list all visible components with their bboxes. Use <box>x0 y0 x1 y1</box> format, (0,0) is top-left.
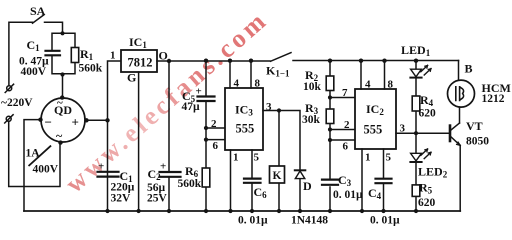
svg-text:2: 2 <box>344 119 350 131</box>
node QD bottom <box>58 140 62 144</box>
wire R2 R3 chain <box>329 61 331 212</box>
svg-text:30k: 30k <box>302 114 321 126</box>
svg-text:620: 620 <box>418 197 436 209</box>
wire IC3 pin2 <box>206 127 225 129</box>
wire IC2 pin5 to C4 <box>383 149 385 211</box>
node QD left <box>38 118 42 122</box>
svg-text:560k: 560k <box>178 178 202 190</box>
node ground D <box>298 209 302 213</box>
svg-text:7: 7 <box>342 87 348 99</box>
svg-text:10k: 10k <box>303 81 322 93</box>
node IC2 pin4 rail <box>359 59 363 63</box>
LED2 arrows <box>421 149 431 159</box>
svg-text:D: D <box>303 179 312 193</box>
node AC terminal L <box>5 84 13 92</box>
svg-text:5: 5 <box>386 152 392 164</box>
svg-text:K: K <box>273 170 282 182</box>
wire IC3 pin3 output <box>263 111 300 170</box>
svg-text:VT: VT <box>466 119 483 133</box>
svg-text:560k: 560k <box>79 63 103 75</box>
svg-text:3: 3 <box>266 101 272 113</box>
node ground C1 <box>105 209 109 213</box>
wire IC2 pin8 <box>384 61 386 90</box>
wire IC1 ground pin G <box>138 72 140 211</box>
capacitor C5 47u plates <box>198 97 215 102</box>
resistor R1 branch <box>63 33 76 73</box>
svg-text:5: 5 <box>254 152 260 164</box>
node ground K <box>277 209 281 213</box>
switch SA arm <box>33 15 45 24</box>
LED2 symbol <box>411 153 422 161</box>
svg-text:6: 6 <box>213 140 219 152</box>
node ground R5 <box>414 209 418 213</box>
node AC terminal N <box>5 115 13 123</box>
wire IC3 pin5 to C6 <box>251 150 253 211</box>
node ground C6 <box>250 209 254 213</box>
svg-text:0. 01µ: 0. 01µ <box>333 189 363 201</box>
op-amp regulator IC1 7812 box <box>121 50 157 72</box>
node LED1 rail <box>414 59 418 63</box>
bridge rectifier QD <box>41 98 85 142</box>
capacitor C1 220u plates <box>98 172 119 177</box>
wire QD minus to left ground drop <box>24 120 41 211</box>
wire AC return: terminal N down, right, up to QD <box>9 121 60 186</box>
buzzer element symbol <box>456 87 460 101</box>
svg-text:1: 1 <box>110 50 116 62</box>
svg-text:+: + <box>98 161 104 173</box>
svg-text:47µ: 47µ <box>182 101 201 113</box>
wire top-left from switch SA to C1/R1 <box>9 22 63 85</box>
svg-text:400V: 400V <box>33 164 59 176</box>
diode D 1N4148 <box>299 179 301 211</box>
LED1 arrows <box>421 65 431 75</box>
svg-text:555: 555 <box>236 122 255 136</box>
capacitor C6 plates <box>244 179 261 183</box>
node C5 pin2 junction <box>204 126 208 130</box>
node C5 top rail <box>204 59 208 63</box>
node QD+ on V+ bus <box>105 118 109 122</box>
node pin2 IC2 junction <box>328 127 332 131</box>
wire IC2 pin6 <box>330 139 355 141</box>
wire IC2 pin1 to ground <box>361 149 363 211</box>
node R2 rail <box>328 59 332 63</box>
svg-text:0. 01µ: 0. 01µ <box>370 215 400 227</box>
node R2 R3 pin7 junction <box>328 95 332 99</box>
node C1R1 to QD junction <box>60 72 64 76</box>
resistor R1 body <box>71 48 78 63</box>
wire buzzer to VT collector <box>459 107 461 123</box>
wire QD plus to V+ bus <box>85 119 108 121</box>
wire VT emitter to ground rail <box>459 145 461 211</box>
resistor R5 body <box>412 185 420 197</box>
node ground C4 <box>381 209 385 213</box>
wire C5 / R6 / pins 2,6 bus <box>205 61 207 212</box>
svg-text:−: − <box>45 115 52 130</box>
svg-text:8: 8 <box>255 78 261 90</box>
svg-text:4: 4 <box>365 79 371 91</box>
wire IC2 pin3 to VT base <box>396 132 450 134</box>
wire ground rail <box>24 210 460 212</box>
node QD top <box>60 95 64 99</box>
buzzer B drop from rail <box>458 61 460 81</box>
node pin6 IC2 junction <box>328 138 332 142</box>
wire IC3 pin6 <box>206 139 225 141</box>
svg-text:1212: 1212 <box>482 93 505 105</box>
capacitor C3 plates <box>322 180 338 185</box>
svg-text:8050: 8050 <box>466 136 489 148</box>
svg-text:7812: 7812 <box>128 56 153 70</box>
svg-text:+: + <box>160 161 166 173</box>
svg-text:620: 620 <box>419 108 437 120</box>
capacitor C2 56u plates <box>160 172 181 177</box>
svg-text:1: 1 <box>365 152 371 164</box>
node ground IC3 pin1 <box>228 209 232 213</box>
resistor R6 body <box>202 168 210 187</box>
timer IC2 555 box <box>355 89 396 149</box>
node IC3 pin4 rail <box>228 59 232 63</box>
svg-text:1A: 1A <box>26 148 41 160</box>
node ground C3 <box>328 209 332 213</box>
node pin6 junction <box>204 138 208 142</box>
resistor R2 body <box>326 76 334 91</box>
svg-text:~: ~ <box>56 129 63 143</box>
wire V+ bus (QD+ / IC1 pin1 / C1 220u) <box>108 61 122 211</box>
node pin3 LED junction <box>414 131 418 135</box>
node SA to C1R1 junction <box>60 31 64 35</box>
svg-text:6: 6 <box>343 141 349 153</box>
LED1 symbol <box>411 69 422 77</box>
svg-text:+: + <box>196 86 202 98</box>
svg-text:32V: 32V <box>111 193 132 205</box>
transistor VT 8050 <box>451 123 460 130</box>
wire IC3 pin1 to ground <box>230 150 232 211</box>
svg-text:~220V: ~220V <box>1 97 33 109</box>
resistor R3 body <box>326 109 334 124</box>
svg-text:B: B <box>465 62 473 76</box>
wire IC2 pin7 <box>330 97 355 99</box>
svg-text:25V: 25V <box>147 193 168 205</box>
node ground G <box>137 209 141 213</box>
svg-text:1N4148: 1N4148 <box>291 215 328 227</box>
capacitor C4 plates <box>376 179 392 184</box>
svg-text:3: 3 <box>400 123 406 135</box>
node IC3 pin3 K branch <box>277 108 281 112</box>
svg-text:0. 01µ: 0. 01µ <box>238 215 268 227</box>
wire IC2 pin4 <box>360 61 362 90</box>
wire IC3 pin8 <box>250 61 252 89</box>
svg-text:G: G <box>127 71 136 85</box>
svg-text:4: 4 <box>234 78 240 90</box>
wire C2 drop from O node <box>168 61 170 211</box>
capacitor C1 plates <box>46 51 61 56</box>
wire IC3 pin4 <box>229 61 231 89</box>
wire top V+ rail left of K1-1 <box>169 60 270 62</box>
wire IC2 pin2 <box>330 129 355 131</box>
svg-text:2: 2 <box>211 118 217 130</box>
relay K box <box>270 166 285 183</box>
node ground IC2 pin1 <box>360 209 364 213</box>
svg-text:400V: 400V <box>21 66 47 78</box>
wire IC1 output to O node <box>157 60 169 62</box>
fuse 1A 400V <box>29 146 50 165</box>
svg-text:555: 555 <box>364 123 383 137</box>
wire top V+ rail right of K1-1 <box>293 60 459 62</box>
node IC3 pin8 rail <box>249 59 253 63</box>
node O junction <box>167 59 171 63</box>
wire C1R1 block to QD top <box>62 74 64 98</box>
svg-text:1: 1 <box>233 152 239 164</box>
LED1 and R4 branch <box>415 61 417 134</box>
node ground R6 <box>204 209 208 213</box>
svg-text:+: + <box>72 115 79 130</box>
switch K1-1 arm <box>271 53 292 62</box>
node IC2 pin8 rail <box>382 59 386 63</box>
LED2 and R5 branch <box>415 133 417 211</box>
capacitor C1 0.47u branch <box>52 33 63 73</box>
resistor R4 body <box>412 96 420 111</box>
svg-text:O: O <box>159 49 168 63</box>
svg-text:8: 8 <box>388 79 394 91</box>
timer IC3 555 box <box>225 88 263 150</box>
wire relay K drop <box>278 111 280 212</box>
node ground C2 <box>167 209 171 213</box>
buzzer B circle HCM1212 <box>448 80 475 107</box>
svg-text:SA: SA <box>30 4 46 18</box>
node QD right <box>84 118 88 122</box>
